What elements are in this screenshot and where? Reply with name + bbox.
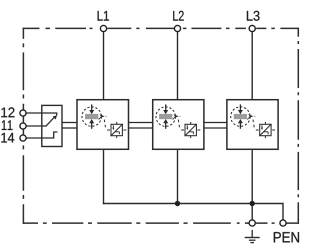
wire box1 bottom to bus (103, 149, 105, 204)
terminal circle L1 (100, 25, 106, 31)
left border solid segment behind signal terminals (22, 110, 24, 141)
mechanical link box2 to box3 upper (204, 122, 227, 124)
SPD symbol 2 (156, 104, 200, 138)
junction dot L2 bus (175, 201, 180, 206)
mechanical link box1 to box2 lower (129, 127, 153, 129)
terminal circle 12 (20, 110, 26, 116)
ground bar 2 (249, 239, 256, 241)
label L2 (173, 11, 184, 21)
mechanical link contact box to box1 lower (62, 127, 77, 129)
wire box2 bottom to bus (177, 149, 179, 203)
terminal circle L3 (249, 25, 255, 31)
enclosure border left (22, 28, 24, 224)
mechanical link box2 to box3 lower (204, 127, 227, 129)
contact 12 line inside box with end hook (42, 113, 57, 115)
wire L1 drop to box (103, 29, 105, 100)
label L3 (247, 11, 260, 21)
label 12 (1, 107, 14, 117)
terminal circle L2 (174, 25, 180, 31)
ground stub (251, 230, 253, 238)
wire terminal 14 to contact box (23, 137, 42, 139)
label PEN (274, 232, 299, 242)
wire box3 bottom through junction to earth terminal (251, 149, 253, 223)
SPD box 1 (77, 100, 129, 150)
ground bar 3 (250, 242, 254, 244)
wire L2 drop to box (177, 29, 179, 100)
wire terminal 12 to contact box (23, 112, 42, 114)
switch arm arrowhead (53, 115, 57, 119)
label 14 (1, 133, 14, 143)
wire terminal 11 to contact box (23, 125, 42, 127)
enclosure border top (23, 27, 299, 29)
mechanical link box1 to box2 upper (129, 122, 153, 124)
ground bar 1 (245, 237, 260, 239)
SPD box 3 (227, 100, 278, 150)
label L1 (98, 11, 109, 21)
contact 11 line inside box (42, 125, 47, 127)
wire L3 drop to box (251, 29, 253, 100)
terminal circle 14 (20, 135, 26, 141)
enclosure border bottom (23, 222, 299, 224)
PEN terminal circle (280, 220, 286, 226)
junction dot L3 bus (250, 201, 255, 206)
SPD box 2 (153, 100, 204, 150)
bottom bus wire (103, 204, 283, 224)
switch arm (46, 118, 54, 127)
SPD symbol 1 (82, 104, 126, 138)
enclosure border right (297, 28, 299, 224)
earth terminal circle (249, 220, 255, 226)
label 11 (2, 120, 13, 130)
SPD symbol 3 (231, 104, 275, 138)
contact 14 step line (42, 132, 58, 138)
changeover contact box (42, 105, 62, 146)
mechanical link contact box to box1 upper (62, 122, 77, 124)
terminal circle 11 (20, 123, 26, 129)
